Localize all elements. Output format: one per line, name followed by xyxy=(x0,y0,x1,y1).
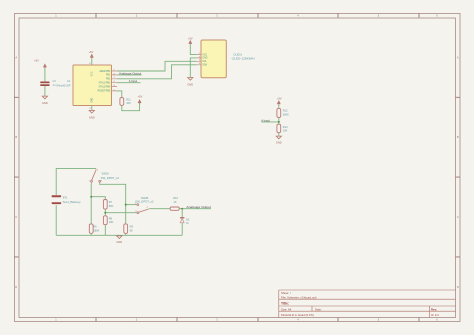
wire R7 to R8 xyxy=(104,209,106,216)
wire SW2A right throw to R9 column xyxy=(100,184,126,224)
svg-text:PB2: PB2 xyxy=(106,79,111,81)
switch SW2B xyxy=(135,196,154,214)
ground under C1 xyxy=(42,96,48,105)
wire R10 to output node xyxy=(179,208,211,210)
svg-text:+5V: +5V xyxy=(34,59,39,63)
svg-text:+5V: +5V xyxy=(188,37,193,41)
resistor R9 xyxy=(124,224,134,234)
svg-text:RESET/PB5: RESET/PB5 xyxy=(98,91,111,93)
svg-text:SCL: SCL xyxy=(202,61,207,63)
wire battery top rail to SW2A xyxy=(56,169,96,196)
U1 pin numbers xyxy=(114,69,116,91)
power +5V at R11 xyxy=(138,95,143,103)
power +5V above OLED xyxy=(188,37,193,45)
wire tap to SW2B top throw xyxy=(126,204,136,206)
svg-text:SW2A: SW2A xyxy=(102,171,110,175)
node A Input junction xyxy=(278,121,280,123)
OLED left pin stubs xyxy=(197,55,201,65)
svg-text:R6: R6 xyxy=(93,225,97,229)
svg-text:GND: GND xyxy=(187,82,193,86)
wire U1 pin2 A Input xyxy=(117,82,141,84)
svg-text:GND: GND xyxy=(89,115,95,119)
svg-text:VCC: VCC xyxy=(202,54,207,56)
resistor R13 xyxy=(277,124,288,133)
svg-text:A: A xyxy=(457,55,459,59)
svg-text:R13: R13 xyxy=(283,125,288,129)
wire junction to SW2B bottom throw xyxy=(105,212,136,214)
svg-text:SW_DPDT_x2: SW_DPDT_x2 xyxy=(135,200,154,204)
svg-text:R9: R9 xyxy=(130,225,134,229)
wire U1 GND pin 4 xyxy=(91,106,93,111)
svg-text:Test_Battery: Test_Battery xyxy=(63,200,82,204)
node junction R7 R8 xyxy=(104,212,106,214)
svg-text:OLED1: OLED1 xyxy=(233,53,242,57)
wire U1 RESET to R11 xyxy=(117,91,122,98)
capacitor C1 xyxy=(40,79,56,87)
resistor R12 xyxy=(277,108,289,117)
OLED pin names xyxy=(202,54,207,66)
wire R12 to R13 xyxy=(278,118,280,125)
svg-text:10K: 10K xyxy=(109,220,114,224)
svg-text:A Input: A Input xyxy=(261,118,270,122)
op-amp U1 ATtiny45-20P body xyxy=(56,65,112,106)
wire +5V to C1 xyxy=(44,68,46,81)
svg-text:GND: GND xyxy=(116,240,122,244)
OLED pin numbers xyxy=(199,53,201,65)
resistor R10 xyxy=(170,196,179,211)
wire U1 pin5 to OLED SCL xyxy=(117,61,197,71)
svg-text:B: B xyxy=(457,135,459,139)
wire R13 to GND xyxy=(278,133,280,136)
svg-text:D2: D2 xyxy=(186,217,190,221)
TITLEBLOCK xyxy=(279,290,456,318)
ground on rail xyxy=(116,236,122,244)
svg-text:U1: U1 xyxy=(67,79,71,83)
U1 pin names xyxy=(98,70,111,93)
svg-text:PB1: PB1 xyxy=(106,75,111,77)
svg-text:R11: R11 xyxy=(126,97,131,101)
svg-text:560K: 560K xyxy=(283,113,289,117)
svg-text:AREF/PB0: AREF/PB0 xyxy=(99,70,111,73)
power +5V PWR01 xyxy=(34,59,46,69)
wire R8 to rail xyxy=(104,225,106,236)
svg-text:Title:: Title: xyxy=(281,302,289,306)
wire A Input tap xyxy=(261,121,279,123)
svg-text:56K: 56K xyxy=(109,204,114,208)
wire D2 to rail xyxy=(181,223,183,236)
svg-text:R12: R12 xyxy=(283,109,288,113)
svg-text:VCC: VCC xyxy=(92,71,94,76)
svg-text:D: D xyxy=(457,285,459,289)
svg-text:D: D xyxy=(15,285,17,289)
node junction at R7 tap xyxy=(90,196,92,198)
wire SW2B common to R10 xyxy=(149,208,170,210)
svg-text:GND: GND xyxy=(202,58,207,60)
svg-text:R10: R10 xyxy=(173,196,178,200)
svg-text:BT1: BT1 xyxy=(63,196,68,200)
svg-text:R8: R8 xyxy=(109,216,113,220)
wire tap to R7 xyxy=(91,197,105,200)
svg-text:+5V: +5V xyxy=(277,97,282,101)
wire +5V to R12 xyxy=(278,105,280,109)
svg-text:Size: A4: Size: A4 xyxy=(281,307,292,311)
svg-text:+5V: +5V xyxy=(138,95,143,99)
svg-text:Rev:: Rev: xyxy=(431,307,437,311)
svg-text:R7: R7 xyxy=(109,200,113,204)
node output junction xyxy=(181,208,183,210)
wire R11 to +5V xyxy=(122,103,140,111)
wire OLED GND to ground xyxy=(190,58,196,77)
ground under OLED xyxy=(187,78,193,87)
svg-text:Date:: Date: xyxy=(315,307,322,311)
wire battery bottom to rail xyxy=(55,205,57,235)
resistor R6 xyxy=(89,224,99,234)
svg-text:File: Voltmeter_v3.kicad_sch: File: Voltmeter_v3.kicad_sch xyxy=(281,295,317,299)
wire SW2A left throw down xyxy=(90,184,92,224)
svg-text:Analouge Output: Analouge Output xyxy=(186,205,211,209)
svg-text:10K: 10K xyxy=(126,101,131,105)
wire C1 to GND xyxy=(44,86,46,96)
power +5V above R12 divider xyxy=(277,97,282,105)
svg-text:A Input: A Input xyxy=(129,79,138,83)
svg-text:SW2B: SW2B xyxy=(141,196,149,200)
svg-text:SW_DPDT_x2: SW_DPDT_x2 xyxy=(101,176,120,180)
svg-text:KiCad E.D.A. kicad (6.0.5): KiCad E.D.A. kicad (6.0.5) xyxy=(281,313,314,317)
svg-text:180K: 180K xyxy=(93,228,99,232)
svg-text:Analouge Output: Analouge Output xyxy=(119,71,142,75)
ground under U1 xyxy=(89,110,95,119)
wire R6 to rail xyxy=(90,233,92,235)
svg-text:GND: GND xyxy=(276,140,282,144)
resistor R8 xyxy=(103,216,113,225)
svg-text:Id: 1/1: Id: 1/1 xyxy=(431,313,439,317)
wire ground rail xyxy=(56,234,182,236)
svg-text:C: C xyxy=(457,215,459,219)
svg-text:GND: GND xyxy=(42,101,48,105)
wire R9 to rail xyxy=(125,233,127,235)
switch SW2A xyxy=(89,169,120,184)
wire node to D2 xyxy=(181,209,183,218)
svg-text:1K: 1K xyxy=(173,200,176,204)
node junction at SW2B top tap xyxy=(125,204,127,206)
svg-text:A: A xyxy=(15,55,17,59)
svg-text:B: B xyxy=(15,135,17,139)
svg-text:10K: 10K xyxy=(283,129,288,133)
svg-text:XTAL1/PB3: XTAL1/PB3 xyxy=(98,82,111,85)
wire +5V to U1 VCC pin 8 xyxy=(91,58,93,65)
wire +5V to OLED VCC xyxy=(190,44,196,54)
U1 right pins stubs xyxy=(112,71,118,91)
svg-text:+5V: +5V xyxy=(89,50,94,54)
svg-text:ATtiny45-20P: ATtiny45-20P xyxy=(56,84,71,88)
svg-text:C1: C1 xyxy=(53,79,57,83)
svg-text:XTAL2/PB4: XTAL2/PB4 xyxy=(98,85,111,88)
wire U1 pin7 to OLED SDA xyxy=(117,65,197,79)
display OLED1 body xyxy=(201,40,255,78)
svg-text:C: C xyxy=(15,215,17,219)
svg-text:SDA: SDA xyxy=(202,64,207,67)
svg-text:GND: GND xyxy=(92,97,94,102)
resistor R7 xyxy=(103,200,113,210)
power +5V above U1 xyxy=(89,50,94,58)
wire U1 pin6 Analouge Output xyxy=(117,74,142,76)
svg-text:OLED-128X64N: OLED-128X64N xyxy=(232,57,255,61)
zener diode D2 xyxy=(180,217,190,225)
resistor R11 xyxy=(120,97,131,105)
battery BT1 xyxy=(52,195,82,204)
ground under R13 xyxy=(276,136,282,144)
